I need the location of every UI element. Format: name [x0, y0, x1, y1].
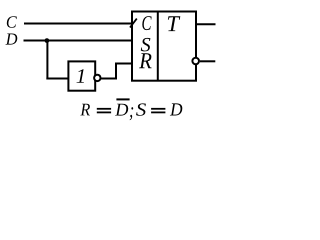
overline bar on D — [116, 98, 129, 100]
junction dot on D wire — [45, 38, 50, 43]
wire output Q — [197, 23, 216, 25]
pin label S — [141, 38, 151, 51]
equation term D — [170, 103, 182, 115]
node C input label — [7, 16, 17, 28]
wire junction down — [46, 41, 48, 80]
inverter label 1 — [76, 69, 84, 83]
flip-flop U2 box — [132, 12, 196, 81]
pin label C — [142, 16, 151, 30]
dynamic clock input slash — [130, 19, 137, 28]
block label T — [168, 16, 180, 31]
node D input label — [5, 34, 17, 45]
wire inverter output vertical — [115, 63, 117, 80]
equation equals sign 1 — [97, 108, 111, 110]
output bubble inverted Q — [192, 58, 199, 65]
inverter output bubble — [94, 75, 100, 81]
wire into flip-flop R input — [115, 63, 132, 65]
wire into inverter — [46, 78, 67, 80]
flip-flop section divider — [157, 11, 159, 81]
inverter U1 box — [68, 61, 95, 90]
equation term R — [80, 104, 90, 116]
equation semicolon — [130, 107, 133, 120]
wire C to flip-flop clock — [24, 23, 132, 25]
equation term D with overline — [115, 104, 128, 116]
equation term S — [136, 103, 146, 115]
pin label R — [139, 53, 151, 68]
wire output inverted Q — [200, 60, 215, 62]
wire D to flip-flop S input — [24, 40, 133, 42]
equation equals sign 2 — [151, 108, 165, 110]
wire inverter output horizontal — [101, 78, 118, 80]
